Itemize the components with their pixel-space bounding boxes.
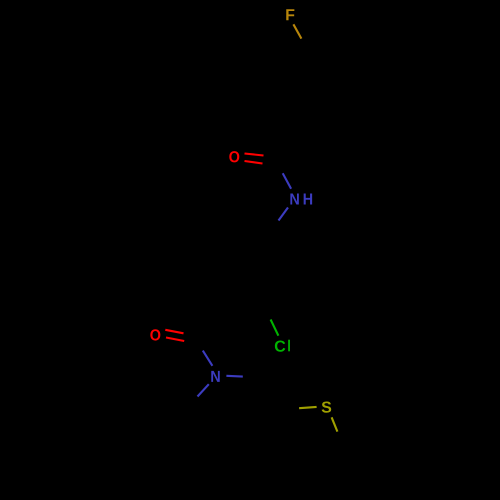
atom O2 (bottom carbonyl oxygen): [150, 329, 160, 340]
bond N2-C4 methylene (nitrogen half, to the right): [226, 375, 242, 378]
bond O2=C3 double bond, inner line (oxygen half): [166, 338, 184, 342]
atom Cl (chlorine) C glyph: [275, 340, 285, 351]
atom N1 (amide NH nitrogen): [290, 193, 298, 204]
atom N1 hydrogen label: [304, 193, 312, 204]
atom Cl (chlorine) l glyph: [288, 340, 290, 352]
bond O1=C1 double bond, inner line (oxygen half): [245, 161, 263, 164]
bond O1=C1 double bond, outer line (oxygen half): [245, 154, 264, 156]
bond N2-C5 methyl (nitrogen half, down-left): [198, 384, 209, 396]
bond C3-N2 (nitrogen half, up-left from N2 toward carbonyl): [203, 351, 213, 366]
bond F-C7 ring carbon (fluorine half): [293, 24, 301, 38]
bond S-C9 methyl (sulfur half, down-right from S): [332, 417, 338, 431]
atom N2 (tertiary amide nitrogen): [211, 371, 219, 382]
bond O2=C3 double bond, outer line (oxygen half): [165, 330, 183, 334]
bond C1-N1 (nitrogen half, up-right from NH toward carbonyl): [283, 173, 291, 188]
bond N1-C2 ring carbon (nitrogen half, down-left from NH): [279, 208, 289, 221]
atom O1 (top carbonyl oxygen): [229, 151, 239, 162]
bond C8-S methylene (sulfur half, to the left of S): [299, 407, 317, 408]
bond C6-Cl ring carbon (chlorine half, up-left from Cl): [271, 320, 279, 336]
atom F (fluorine): [286, 9, 294, 20]
atom S (thioether sulfur): [322, 401, 332, 412]
